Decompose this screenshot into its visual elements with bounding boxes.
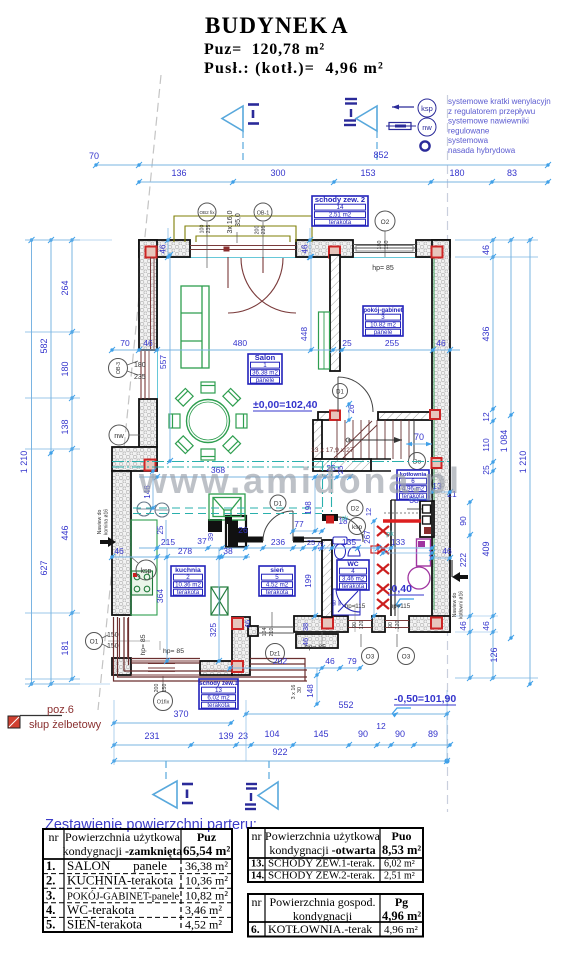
svg-text:terakota: terakota xyxy=(342,583,365,590)
room label box: schody zew.2 xyxy=(312,196,368,226)
exterior stairs bottom-left (brown steps) xyxy=(114,617,308,681)
svg-text:202: 202 xyxy=(273,656,287,666)
room label box: kuchnia xyxy=(171,566,205,596)
svg-text:6,02 m²: 6,02 m² xyxy=(384,859,415,870)
column top-mid xyxy=(329,247,340,258)
column top-left xyxy=(146,247,157,258)
column sien divider bottom xyxy=(232,661,243,672)
svg-text:446: 446 xyxy=(60,525,70,540)
section marker triangle bottom-right xyxy=(268,761,270,782)
svg-text:Puz: Puz xyxy=(197,830,217,844)
door D1 sien leaf+arc xyxy=(292,511,294,541)
table left: zamknieta xyxy=(43,829,232,932)
kitchen sink xyxy=(209,494,245,520)
left extension lines xyxy=(25,239,80,241)
marker Dz1 xyxy=(266,644,285,663)
marker ksp wc xyxy=(349,518,366,535)
svg-text:14.: 14. xyxy=(251,871,265,882)
svg-text:1 210: 1 210 xyxy=(518,451,528,474)
water heater magenta circle xyxy=(408,567,430,589)
bottom dimension line 370 xyxy=(114,722,231,724)
svg-text:nw: nw xyxy=(114,431,124,440)
duct vertical pair sien xyxy=(322,461,324,515)
section marker triangle bottom-left xyxy=(165,761,167,781)
svg-text:sień: sień xyxy=(270,567,284,574)
svg-text:236: 236 xyxy=(271,537,285,547)
interior wall salon/gabinet xyxy=(330,255,340,371)
svg-text:6.02 m2: 6.02 m2 xyxy=(207,695,230,702)
svg-text:325: 325 xyxy=(208,623,218,637)
toilet wc xyxy=(333,537,347,559)
svg-text:4,52 m²: 4,52 m² xyxy=(185,918,222,932)
room label box: pokoj-gabinet xyxy=(363,306,403,336)
kitchen stove xyxy=(132,571,153,595)
svg-text:poz.6: poz.6 xyxy=(47,704,74,716)
property boundary dashed line left xyxy=(98,75,161,710)
svg-text:2.: 2. xyxy=(46,874,55,888)
svg-text:hp= 85: hp= 85 xyxy=(305,644,326,651)
svg-text:77: 77 xyxy=(294,519,304,529)
svg-text:104: 104 xyxy=(264,729,279,739)
svg-text:panele: panele xyxy=(256,377,275,384)
svg-text:KUCHNIA-terakota: KUCHNIA-terakota xyxy=(67,873,173,888)
svg-text:nr: nr xyxy=(252,895,262,909)
svg-text:KOTŁOWNIA.-terak: KOTŁOWNIA.-terak xyxy=(268,922,372,936)
svg-text:4,96 m²: 4,96 m² xyxy=(382,909,421,923)
svg-text:267: 267 xyxy=(363,530,372,544)
svg-text:46: 46 xyxy=(301,244,310,253)
svg-text:hp=115: hp=115 xyxy=(345,603,366,610)
exterior wall: left step block xyxy=(112,447,157,471)
svg-text:terakota: terakota xyxy=(329,219,352,226)
svg-text:150: 150 xyxy=(384,241,390,250)
nawiew do kotlowni arrow+text xyxy=(452,572,468,582)
kitchen/sien divider wall xyxy=(232,617,250,675)
right dimension chain 1084 xyxy=(510,240,512,638)
svg-text:235: 235 xyxy=(261,226,267,235)
svg-text:222: 222 xyxy=(458,553,468,567)
room label box: Salon xyxy=(248,354,282,384)
svg-text:36.38 m2: 36.38 m2 xyxy=(252,370,278,377)
thick red supply line xyxy=(383,519,421,523)
dim 199 vertical xyxy=(314,548,316,616)
svg-text:kondygnacji -zamknięta: kondygnacji -zamknięta xyxy=(63,844,183,858)
svg-text:4: 4 xyxy=(351,568,355,575)
dim line y=477 (368/25) xyxy=(139,476,355,478)
exterior wall: bottom right segment pieces xyxy=(372,616,385,632)
svg-text:±0,00=102,40: ±0,00=102,40 xyxy=(253,399,318,411)
svg-text:215: 215 xyxy=(161,537,175,547)
svg-text:systemowe kratki wenylacyjn: systemowe kratki wenylacyjn xyxy=(448,97,551,106)
left dimension chain 264/180/138/446/181 xyxy=(71,240,73,679)
svg-text:-0,40: -0,40 xyxy=(388,583,412,595)
right wall inner finish line green xyxy=(433,258,435,610)
dining table round xyxy=(187,400,230,443)
dim 70 stairs xyxy=(406,443,432,445)
svg-text:46: 46 xyxy=(481,245,491,255)
svg-text:Pusł.: (kotł.)= 4,96 m²: Pusł.: (kotł.)= 4,96 m² xyxy=(204,60,384,77)
kotlownia left wall xyxy=(390,500,392,616)
svg-text:627: 627 xyxy=(39,560,49,575)
svg-text:110: 110 xyxy=(481,438,491,452)
section marker triangle top-left xyxy=(222,106,243,131)
column top-left restamp xyxy=(146,247,157,258)
bottom extension verticals xyxy=(113,700,115,765)
svg-text:12: 12 xyxy=(364,508,373,516)
svg-text:4.: 4. xyxy=(46,903,55,917)
svg-text:systemowe nawiewniki: systemowe nawiewniki xyxy=(448,117,529,126)
right inner chain 90/222/46 xyxy=(469,502,471,678)
section marker triangle top-right xyxy=(356,106,377,131)
boiler tank magenta xyxy=(417,539,431,566)
exterior wall: bottom sien/wc segment xyxy=(294,616,348,632)
dim 77 sien xyxy=(293,530,322,532)
marker O3 right xyxy=(398,648,415,665)
svg-text:83: 83 xyxy=(507,168,517,178)
dim 325 vertical kitchen/sien xyxy=(218,548,220,661)
svg-text:BUDYNEK: BUDYNEK xyxy=(205,13,328,38)
svg-text:hp= 85: hp= 85 xyxy=(163,648,184,655)
svg-text:235: 235 xyxy=(206,225,212,234)
svg-text:70: 70 xyxy=(414,432,424,442)
exterior wall: right xyxy=(432,240,450,632)
dim line y=553 133 xyxy=(383,552,432,554)
top dimension line 852 xyxy=(96,164,548,166)
corridor left wall xyxy=(313,420,322,459)
svg-text:ksp: ksp xyxy=(141,568,152,575)
exterior wall: left lower xyxy=(112,471,131,615)
svg-text:SALON panele: SALON panele xyxy=(67,858,167,873)
svg-text:46: 46 xyxy=(143,338,153,348)
column top-right xyxy=(432,247,443,258)
svg-text:12: 12 xyxy=(376,721,386,731)
property boundary dashed line right xyxy=(447,95,449,812)
svg-text:139: 139 xyxy=(218,731,233,741)
exterior wall: top band segment 2 xyxy=(296,240,353,257)
svg-text:46: 46 xyxy=(481,621,491,631)
washbasin wc xyxy=(347,540,361,556)
column left step xyxy=(145,460,156,471)
svg-text:4,96 m²: 4,96 m² xyxy=(384,924,419,936)
svg-text:231: 231 xyxy=(144,731,159,741)
svg-text:nw: nw xyxy=(422,123,432,132)
porch block below sien xyxy=(296,634,338,648)
svg-text:D1: D1 xyxy=(336,390,344,396)
svg-text:46: 46 xyxy=(442,546,452,556)
column right wall at stairs bottom xyxy=(432,458,442,468)
svg-text:200: 200 xyxy=(154,684,160,693)
svg-text:pk: pk xyxy=(342,516,349,522)
svg-text:199: 199 xyxy=(304,574,313,588)
svg-text:364: 364 xyxy=(155,589,165,603)
kitchen counter xyxy=(131,520,157,615)
svg-text:30: 30 xyxy=(297,687,303,693)
svg-text:regulowane: regulowane xyxy=(448,126,490,135)
svg-text:104: 104 xyxy=(262,628,268,637)
right extension lines xyxy=(455,239,538,241)
wc left wall xyxy=(322,540,332,617)
svg-text:13: 13 xyxy=(215,687,222,694)
svg-text:Salon: Salon xyxy=(255,353,276,362)
svg-text:46: 46 xyxy=(325,656,335,666)
svg-text:557: 557 xyxy=(158,355,168,369)
stairs direction arrow xyxy=(348,439,402,441)
interior wall corridor/stairs horizontal xyxy=(318,412,340,420)
window OB2fix/OB-1 band (salon) xyxy=(190,245,296,247)
exterior wall: top band segment 1 xyxy=(139,240,190,257)
svg-text:14: 14 xyxy=(337,204,344,211)
entrance step wall stub xyxy=(248,626,258,636)
svg-text:hp=115: hp=115 xyxy=(390,603,411,610)
exterior wall: left upper xyxy=(139,240,157,350)
svg-text:8,53 m²: 8,53 m² xyxy=(382,843,421,857)
marker Do (boiler room door) xyxy=(409,453,426,470)
svg-text:schody zew. 2: schody zew. 2 xyxy=(315,195,365,204)
svg-text:Powierzchnia użytkowa: Powierzchnia użytkowa xyxy=(65,830,181,844)
svg-text:z regulatorem przepływu: z regulatorem przepływu xyxy=(448,107,535,116)
svg-text:ksp: ksp xyxy=(352,524,363,531)
svg-text:3,46 m²: 3,46 m² xyxy=(185,903,222,917)
svg-text:23: 23 xyxy=(238,731,248,741)
svg-text:1: 1 xyxy=(263,362,267,369)
olive lintel outlines above salon window xyxy=(174,216,312,242)
svg-text:180: 180 xyxy=(377,241,383,250)
svg-text:WC: WC xyxy=(347,561,358,568)
svg-text:terakota: terakota xyxy=(207,702,230,709)
svg-text:kotłowni ø16: kotłowni ø16 xyxy=(459,591,465,619)
svg-text:hp= 85: hp= 85 xyxy=(140,634,147,655)
svg-text:nr: nr xyxy=(49,830,59,844)
right dimension chain 46/12/110/25/409/46/126 xyxy=(492,240,494,678)
interior finish face lines (cyan) xyxy=(158,257,432,259)
marker O3 left xyxy=(362,648,379,665)
stairs diagonal break line xyxy=(334,421,372,458)
stairs bottom wall xyxy=(313,459,371,471)
svg-text:278: 278 xyxy=(178,546,192,556)
svg-text:3.: 3. xyxy=(46,888,55,902)
svg-text:235: 235 xyxy=(134,374,146,381)
svg-text:180: 180 xyxy=(134,362,146,369)
poz.6 legend (reinforced column) xyxy=(8,716,20,728)
svg-text:hp= 85: hp= 85 xyxy=(372,265,394,272)
svg-text:3x 16,0: 3x 16,0 xyxy=(227,210,234,233)
dim 25 vertical kitchen xyxy=(165,520,167,545)
svg-text:1.: 1. xyxy=(46,859,55,873)
left dimension chain 1210 xyxy=(31,240,33,684)
svg-text:79: 79 xyxy=(347,656,357,666)
svg-text:10.82 m2: 10.82 m2 xyxy=(370,322,396,329)
column sien divider top xyxy=(232,618,243,629)
svg-text:90: 90 xyxy=(337,600,343,606)
svg-text:200: 200 xyxy=(255,226,261,235)
shower wc xyxy=(333,589,360,615)
svg-text:12: 12 xyxy=(481,412,491,422)
window O3 left xyxy=(348,620,372,622)
svg-text:10,36 m²: 10,36 m² xyxy=(185,874,228,888)
svg-text:5: 5 xyxy=(275,574,279,581)
exterior wall: bottom kitchen segment xyxy=(200,661,232,675)
svg-text:70: 70 xyxy=(89,151,99,161)
svg-text:148: 148 xyxy=(306,684,315,698)
bottom dimension line 552 xyxy=(246,713,447,715)
svg-text:370: 370 xyxy=(173,709,188,719)
svg-text:300: 300 xyxy=(270,168,285,178)
dim line y=548 (215/37/236/25/135) xyxy=(139,547,432,549)
svg-text:180: 180 xyxy=(449,168,464,178)
duct line horizontal main xyxy=(112,461,450,463)
svg-text:13.: 13. xyxy=(251,859,265,870)
chimney block kitchen xyxy=(208,519,222,532)
dim 364 vertical kitchen xyxy=(166,548,168,661)
svg-text:12: 12 xyxy=(316,542,325,550)
window marker O2 xyxy=(375,211,395,231)
dim 148 vertical xyxy=(316,668,318,704)
svg-text:nasada hybrydowa: nasada hybrydowa xyxy=(448,146,516,155)
svg-text:922: 922 xyxy=(272,747,287,757)
bottom dimension line 231/139/23/104/145/90/12/90/89 xyxy=(114,744,450,746)
room label box: sien xyxy=(259,566,295,596)
svg-text:582: 582 xyxy=(39,338,49,353)
svg-text:6.: 6. xyxy=(251,924,260,936)
svg-text:38: 38 xyxy=(223,546,233,556)
small red box near duct xyxy=(326,516,334,524)
svg-text:4.52 m2: 4.52 m2 xyxy=(266,582,289,589)
svg-text:480: 480 xyxy=(233,338,247,348)
svg-text:słup żelbetowy: słup żelbetowy xyxy=(29,719,102,731)
svg-text:38: 38 xyxy=(301,623,310,631)
dim 198 vertical xyxy=(314,477,316,531)
svg-text:65,54 m²: 65,54 m² xyxy=(183,843,230,858)
svg-text:46: 46 xyxy=(159,244,168,253)
svg-text:kondygnacji: kondygnacji xyxy=(293,909,353,923)
svg-text:133: 133 xyxy=(391,537,405,547)
svg-text:35,0: 35,0 xyxy=(235,213,242,227)
svg-text:O3: O3 xyxy=(402,654,411,661)
kitchen vent circles xyxy=(137,502,151,516)
svg-text:153: 153 xyxy=(360,168,375,178)
svg-text:1 210: 1 210 xyxy=(19,451,29,474)
bottom interior dims 202/46/79 xyxy=(230,667,360,669)
red shutoff X marks xyxy=(377,526,389,536)
svg-text:90: 90 xyxy=(358,729,368,739)
column stairs-wall left xyxy=(330,411,340,421)
svg-text:10.36 m2: 10.36 m2 xyxy=(175,582,201,589)
svg-text:90: 90 xyxy=(388,622,394,628)
svg-text:POKÓJ-GABINET-panele: POKÓJ-GABINET-panele xyxy=(67,890,180,902)
svg-text:systemowa: systemowa xyxy=(448,136,489,145)
svg-text:26: 26 xyxy=(238,525,248,535)
svg-text:O1fix: O1fix xyxy=(157,700,170,706)
svg-text:5.: 5. xyxy=(46,918,55,932)
exterior wall: top band segment 3 xyxy=(416,240,450,257)
svg-text:46: 46 xyxy=(436,338,446,348)
svg-text:kondygnacji -otwarta: kondygnacji -otwarta xyxy=(269,843,375,857)
svg-text:OB-1: OB-1 xyxy=(257,211,270,217)
window OB-3 left wall xyxy=(140,350,142,399)
svg-text:O3: O3 xyxy=(366,654,375,661)
svg-text:ksp: ksp xyxy=(421,104,433,113)
marker D2 xyxy=(347,500,363,516)
fridge xyxy=(211,587,228,615)
wall thickness mini-dims 46 top xyxy=(167,240,169,257)
svg-text:145: 145 xyxy=(313,729,328,739)
svg-text:90: 90 xyxy=(458,516,468,526)
room label box: schody zew.1 xyxy=(199,679,238,709)
wall sien top with door D1 xyxy=(238,537,263,543)
marker ksp kitchen xyxy=(136,560,156,580)
stairs block xyxy=(337,420,409,459)
svg-text:Puz= 120,78 m²: Puz= 120,78 m² xyxy=(204,41,325,58)
column bottom-right xyxy=(431,618,442,629)
dim 557 vertical salon xyxy=(169,255,171,461)
svg-text:46: 46 xyxy=(114,546,124,556)
svg-text:Nawiew do: Nawiew do xyxy=(97,510,103,535)
svg-text:70: 70 xyxy=(120,338,130,348)
dim 448 vertical gabinet xyxy=(310,257,312,350)
svg-text:255: 255 xyxy=(385,338,399,348)
exterior wall: left bottom corner piece xyxy=(112,658,131,675)
svg-text:O2: O2 xyxy=(381,219,390,226)
entrance door Dz1 opening xyxy=(258,626,294,628)
svg-text:90: 90 xyxy=(395,729,405,739)
svg-text:Nawiew do: Nawiew do xyxy=(452,593,458,618)
svg-text:409: 409 xyxy=(481,541,491,556)
legend: ventilation symbols xyxy=(392,106,414,108)
svg-text:136: 136 xyxy=(171,168,186,178)
window O1 left wall low xyxy=(119,618,121,658)
table right: gospod xyxy=(248,894,423,937)
svg-text:kuchnia: kuchnia xyxy=(175,567,201,574)
kotlownia equipment: manifold box xyxy=(420,501,434,537)
top dimension line 136/300/153/180/83 xyxy=(139,181,548,183)
svg-text:46: 46 xyxy=(243,620,252,628)
svg-text:25: 25 xyxy=(342,338,352,348)
svg-text:13 x 17,9 x 27: 13 x 17,9 x 27 xyxy=(311,447,354,454)
dim 146 vertical xyxy=(152,471,154,508)
window O2 (gabinet) xyxy=(353,244,416,246)
svg-text:39: 39 xyxy=(206,533,215,541)
svg-text:120: 120 xyxy=(359,621,365,630)
svg-text:264: 264 xyxy=(60,280,70,295)
svg-text:3,46 m2: 3,46 m2 xyxy=(342,576,365,583)
right dimension chain 1210 xyxy=(529,240,531,684)
column top-right restamp xyxy=(432,247,443,258)
svg-text:D2: D2 xyxy=(351,506,360,513)
svg-text:210: 210 xyxy=(269,628,275,637)
door D1 gabinet leaf and arc xyxy=(337,377,339,412)
stairs bottom wall thin extension xyxy=(371,458,391,460)
window O3 right xyxy=(385,620,409,622)
svg-text:25: 25 xyxy=(156,525,165,534)
svg-text:181: 181 xyxy=(60,640,70,655)
svg-text:SCHODY ZEW.2-terak.: SCHODY ZEW.2-terak. xyxy=(268,870,375,882)
svg-text:126: 126 xyxy=(489,647,499,662)
svg-text:3: 3 xyxy=(381,314,385,321)
svg-text:SIEŃ-terakota: SIEŃ-terakota xyxy=(67,917,142,932)
svg-text:198: 198 xyxy=(304,501,313,515)
svg-text:schody zew.1: schody zew.1 xyxy=(199,681,238,687)
chairs around table xyxy=(201,382,215,393)
svg-text:terakota: terakota xyxy=(266,589,289,596)
marker D1 gabinet xyxy=(333,384,348,399)
column bottom sien xyxy=(322,618,333,629)
svg-text:O1: O1 xyxy=(90,639,99,646)
svg-text:Pg: Pg xyxy=(395,895,408,909)
svg-text:nr: nr xyxy=(252,829,262,843)
svg-text:2,51 m2: 2,51 m2 xyxy=(329,212,352,219)
marker nw left wall xyxy=(109,425,129,445)
left wall inner brown finish lines xyxy=(150,257,152,350)
